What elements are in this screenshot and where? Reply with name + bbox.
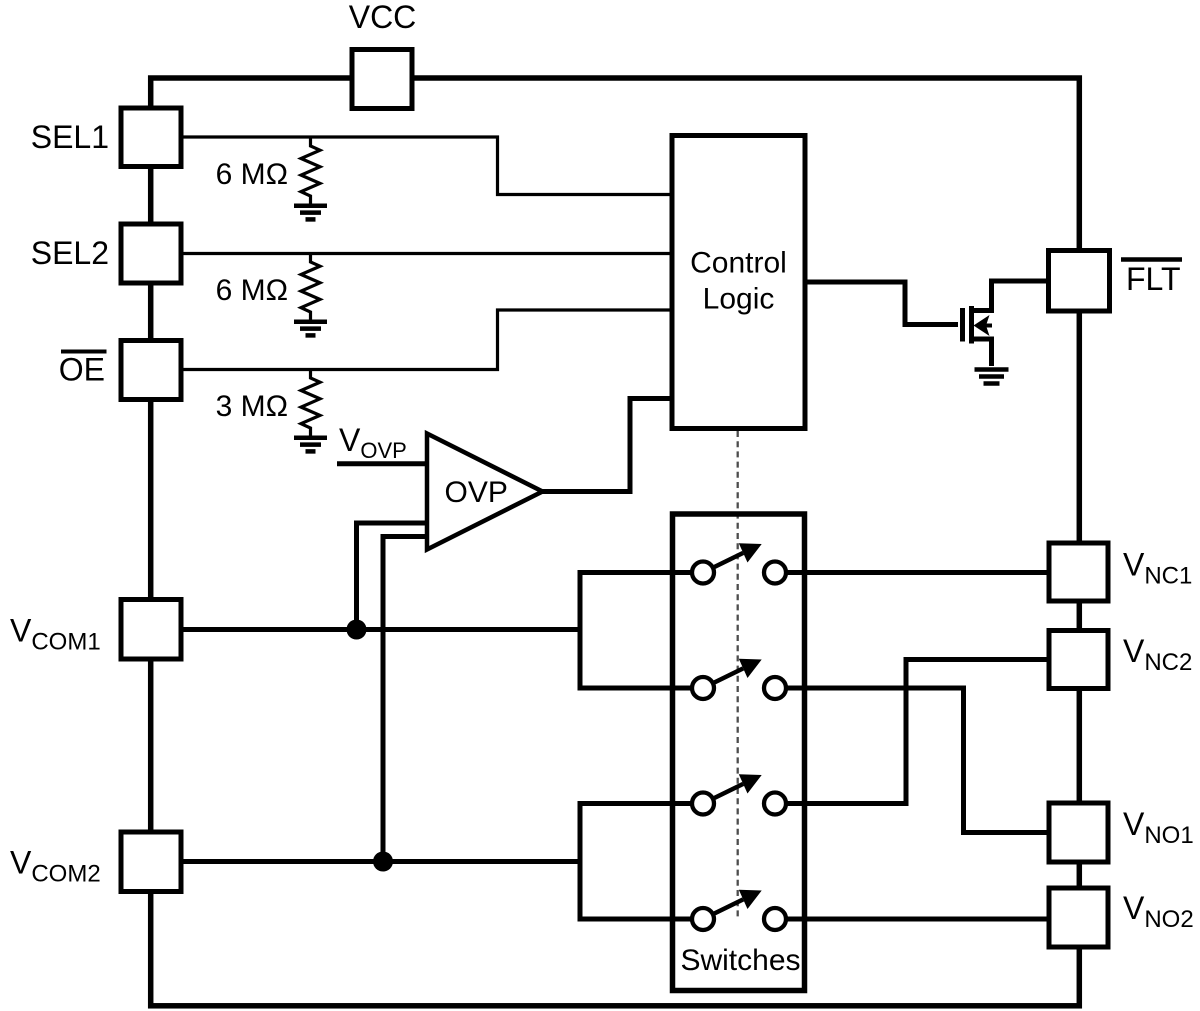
outer IC boundary [151,78,1080,1006]
svg-text:Control: Control [690,247,787,280]
pin OE [121,341,181,400]
wire fork bus VCOM2 to switches S3 S4 [578,801,695,922]
op-amp OVP comparator [427,434,543,550]
junction dot VCOM2 node [373,852,393,872]
pin SEL1 [121,108,181,167]
wire control logic to MOSFET gate [805,282,958,325]
svg-text:3 MΩ: 3 MΩ [216,390,288,423]
resistor R3 3 Mohm [301,371,320,436]
switches block [673,514,805,991]
junction dot VCOM1 node [347,620,367,640]
switch S3 [692,774,786,814]
pin VNC1 [1049,543,1108,601]
wire OVP second input from VCOM2 [383,534,427,862]
wire MOSFET source to ground [971,339,992,366]
pin VCC [352,50,412,109]
dashed control line into switches [737,431,739,918]
pin VNO2 [1049,888,1108,947]
ground for R3 [294,438,327,452]
wire OVP output to control logic [540,396,672,494]
svg-text:Logic: Logic [703,283,775,316]
ground for R1 [294,206,327,220]
svg-text:6 MΩ: 6 MΩ [216,158,288,191]
wire OVP inverting input from VCOM1 [357,521,428,630]
pin VCOM2 [121,832,181,892]
svg-text:SEL1: SEL1 [31,119,109,155]
wire switch S3 to VNC2 [786,657,1049,806]
svg-text:OE: OE [59,352,105,388]
control logic block [672,136,805,429]
resistor R1 6 Mohm [301,138,320,204]
wire SEL1 to control logic [181,137,672,195]
svg-text:Switches: Switches [680,944,800,977]
wire VOVP input [337,461,425,466]
pin VNC2 [1049,631,1108,689]
label FLT with overline [1121,260,1182,298]
ground for Q1 [975,370,1009,384]
wire VCOM1 to switch fork [181,627,580,632]
transistor Q1 NMOS [963,306,993,344]
pin FLT [1049,251,1110,312]
wire VCOM2 to switch fork [181,859,580,864]
wire OE to control logic [181,310,672,370]
pin VNO1 [1049,803,1108,862]
switch S1 [692,543,786,583]
label OE with overline [59,352,107,388]
switch S2 [692,659,786,699]
pin SEL2 [121,224,181,283]
svg-text:SEL2: SEL2 [31,235,109,271]
svg-text:6 MΩ: 6 MΩ [216,274,288,307]
pin VCOM1 [121,600,181,660]
wire switch S1 to VNC1 [786,570,1049,575]
ground for R2 [294,322,327,336]
wire MOSFET drain to FLT [971,281,1048,311]
switch S4 [692,890,786,930]
wire fork bus VCOM1 to switches S1 S2 [578,570,695,691]
wire SEL2 to control logic [181,252,672,255]
svg-text:OVP: OVP [445,476,508,509]
wire switch S2 to VNO1 [786,686,1049,836]
wire switch S4 to VNO2 [786,917,1049,922]
svg-text:FLT: FLT [1126,261,1181,297]
svg-text:VCC: VCC [349,0,417,35]
resistor R2 6 Mohm [301,255,320,320]
